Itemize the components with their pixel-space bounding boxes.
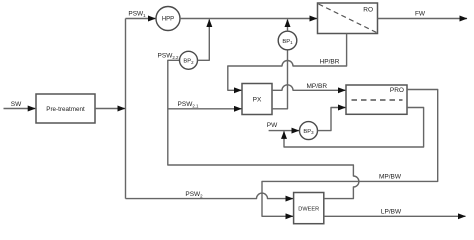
wire BP2 to RO feed junction [198, 19, 210, 60]
svg-text:HPP: HPP [162, 17, 174, 23]
wire SW inlet [4, 108, 36, 110]
wire LP/BW output from DWEER [324, 215, 466, 217]
wire HPP to RO feed line [180, 18, 317, 20]
svg-text:Pre-treatment: Pre-treatment [46, 106, 85, 113]
pump BP2 [180, 51, 198, 69]
pump HPP [156, 7, 180, 31]
svg-text:MP/BW: MP/BW [379, 174, 402, 181]
svg-text:SW: SW [11, 101, 22, 108]
svg-text:BP3: BP3 [303, 129, 314, 135]
wire MP/BR from PX to PRO (hop over BP1 riser) [272, 85, 346, 91]
pre-treatment unit [36, 94, 95, 123]
wire HP/BR brine from RO to PX (hop over BP1 riser) [228, 34, 347, 91]
svg-text:RO: RO [363, 7, 373, 14]
svg-text:MP/BR: MP/BR [307, 83, 328, 90]
svg-text:PRO: PRO [390, 87, 404, 94]
membrane RO [318, 3, 378, 34]
svg-text:PX: PX [253, 97, 262, 104]
wire PRO top output MP/BW to DWEER [262, 90, 438, 217]
wire BP3 to PRO bottom input [318, 108, 346, 131]
wire PSW1 to HPP [126, 18, 156, 20]
pump BP3 [300, 122, 318, 140]
svg-text:DWEER: DWEER [298, 207, 319, 213]
wire PX output to BP1 [272, 50, 288, 109]
wire PW feed to BP3 [269, 130, 299, 132]
pump BP1 [278, 31, 297, 50]
membrane PRO [346, 85, 407, 114]
wire pre-treatment output to manifold [95, 108, 125, 110]
svg-text:FW: FW [415, 11, 426, 18]
svg-text:LP/BW: LP/BW [381, 208, 402, 215]
wire BP1 to RO feed junction [287, 19, 289, 31]
wire DWEER pressurized output riser to BP2 (hop over MP/BW) [168, 60, 359, 198]
svg-text:BP1: BP1 [282, 39, 293, 45]
wire PRO bottom output recycle to PW line [284, 108, 424, 148]
wire PSW2 feed to DWEER (hop over MP/BW drop) [126, 193, 294, 199]
exchanger DWEER [294, 193, 324, 224]
wire PSW2.1 branch to PX [168, 108, 242, 110]
wire manifold vertical [125, 19, 127, 199]
exchanger PX [242, 84, 272, 115]
wire FW product output [378, 18, 468, 20]
svg-text:HP/BR: HP/BR [320, 59, 340, 66]
svg-text:BP2: BP2 [183, 59, 194, 65]
svg-text:PW: PW [267, 122, 278, 129]
